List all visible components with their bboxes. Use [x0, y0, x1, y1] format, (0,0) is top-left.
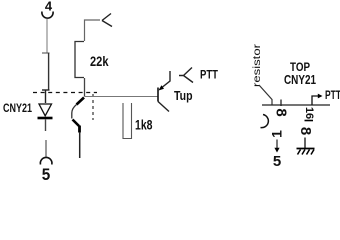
svg-text:CNY21: CNY21 — [284, 72, 316, 87]
svg-text:PTT: PTT — [325, 88, 340, 102]
svg-text:22k: 22k — [90, 54, 109, 69]
svg-text:8: 8 — [297, 127, 314, 135]
svg-text:CNY21: CNY21 — [3, 101, 32, 115]
svg-text:5: 5 — [42, 165, 51, 181]
svg-text:PTT: PTT — [200, 68, 219, 82]
svg-text:16: 16 — [303, 107, 315, 119]
svg-text:4: 4 — [45, 0, 53, 14]
svg-text:Tup: Tup — [174, 89, 193, 103]
svg-text:1: 1 — [269, 130, 285, 138]
svg-text:resistor: resistor — [252, 43, 263, 87]
svg-text:5: 5 — [273, 153, 281, 170]
svg-text:8: 8 — [273, 108, 290, 116]
svg-text:1k8: 1k8 — [135, 117, 153, 132]
